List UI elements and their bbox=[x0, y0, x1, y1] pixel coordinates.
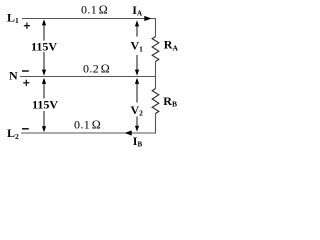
source E1 voltage arrow (double headed, between L1 and N) bbox=[30, 19, 59, 75]
svg-text:IB: IB bbox=[133, 134, 143, 149]
source E2 voltage arrow (double headed, between N and L2) bbox=[31, 78, 60, 133]
current arrow IB (arrowhead on bottom wire, pointing left) bbox=[125, 130, 132, 135]
polarity - of source E1 bbox=[22, 70, 29, 72]
svg-text:RA: RA bbox=[164, 38, 179, 53]
wire N (middle line) bbox=[20, 76, 156, 78]
svg-text:0.1 Ω: 0.1 Ω bbox=[74, 117, 101, 131]
svg-text:IA: IA bbox=[132, 3, 142, 18]
svg-text:115V: 115V bbox=[31, 39, 57, 53]
wire L1 (top line) bbox=[22, 18, 156, 20]
resistor RA (zigzag) bbox=[152, 37, 159, 62]
current arrow IA (arrowhead on top wire) bbox=[144, 16, 151, 21]
polarity - of source E2 bbox=[22, 128, 29, 130]
voltage arrow V1 (double headed, between L1 and N at load side) bbox=[129, 20, 147, 75]
wire right vertical (load branch) bbox=[155, 19, 157, 134]
resistor RB (zigzag) bbox=[152, 89, 159, 114]
svg-text:RB: RB bbox=[163, 94, 177, 109]
svg-text:0.2 Ω: 0.2 Ω bbox=[83, 61, 110, 75]
svg-text:0.1 Ω: 0.1 Ω bbox=[81, 3, 108, 17]
wire L2 (bottom line) bbox=[21, 132, 156, 134]
polarity + of source E1 bbox=[24, 23, 30, 29]
svg-text:L2: L2 bbox=[7, 126, 19, 141]
polarity + of source E2 bbox=[23, 80, 29, 86]
voltage arrow V2 (double headed, between N and L2 at load side) bbox=[129, 78, 147, 132]
svg-text:N: N bbox=[9, 68, 18, 82]
svg-text:L1: L1 bbox=[7, 10, 19, 25]
svg-text:115V: 115V bbox=[32, 97, 58, 111]
